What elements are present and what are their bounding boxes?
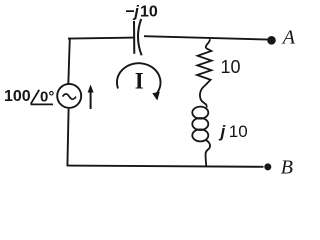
svg-text:10: 10 xyxy=(229,122,248,141)
wire top-right horizontal segment to terminal A xyxy=(144,36,269,39)
svg-text:0°: 0° xyxy=(40,89,54,106)
wire left vertical lower (source to bottom) xyxy=(67,109,68,166)
capacitor C1 left plate xyxy=(133,21,135,54)
capacitor C1 right curved plate xyxy=(138,19,142,55)
ac source sine symbol xyxy=(63,94,76,99)
resistor R1 zigzag xyxy=(197,48,212,86)
inductor L1 loop 2 xyxy=(192,118,208,130)
wire bottom horizontal to terminal B xyxy=(67,166,264,167)
wire inductor bottom tail xyxy=(205,140,210,166)
svg-text:10: 10 xyxy=(140,4,158,21)
ac source polarity arrow xyxy=(90,89,92,109)
inductor L1 loop 3 xyxy=(192,129,208,141)
svg-text:10: 10 xyxy=(221,57,241,77)
terminal A dot xyxy=(267,36,276,45)
ac source V1 circle xyxy=(57,84,81,108)
svg-text:−j: −j xyxy=(125,4,139,21)
mesh current loop arc xyxy=(117,63,161,94)
wire branch top hook xyxy=(206,39,210,48)
mesh current arrowhead xyxy=(152,92,160,101)
wire resistor to inductor xyxy=(200,86,207,107)
svg-text:A: A xyxy=(281,27,296,49)
wire top-left horizontal segment xyxy=(68,38,134,39)
angle symbol underline xyxy=(31,103,54,105)
svg-text:j: j xyxy=(219,122,227,141)
angle symbol slash xyxy=(31,90,39,104)
terminal B dot xyxy=(264,163,271,170)
svg-text:100: 100 xyxy=(4,88,31,105)
wire left vertical upper (corner to source) xyxy=(68,38,70,85)
svg-text:I: I xyxy=(135,68,144,93)
svg-text:B: B xyxy=(281,157,293,177)
inductor L1 loop 1 xyxy=(192,107,208,119)
